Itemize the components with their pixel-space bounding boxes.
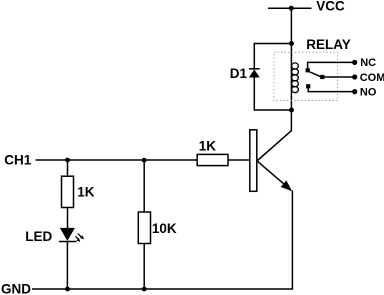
- svg-text:D1: D1: [230, 66, 248, 81]
- wire 10K to GND: [143, 244, 145, 290]
- wire base: [228, 159, 250, 161]
- wire COM: [324, 76, 354, 78]
- relay coil loops: [292, 63, 299, 93]
- relay dotted enclosure: [274, 52, 338, 100]
- wire emitter vertical: [291, 191, 293, 290]
- diode D1: [249, 69, 260, 78]
- svg-text:RELAY: RELAY: [306, 37, 351, 52]
- wire VCC rail: [268, 7, 312, 9]
- wire GND rail: [32, 288, 292, 290]
- transistor Q1 base bar: [250, 130, 257, 192]
- wire D1 bottom horizontal: [254, 109, 291, 111]
- wire resistor to LED: [67, 208, 69, 229]
- svg-text:GND: GND: [1, 281, 31, 295]
- svg-text:COM: COM: [360, 72, 384, 84]
- NO fixed contact pad: [306, 84, 310, 88]
- svg-text:1K: 1K: [199, 139, 217, 154]
- node CH1/LED junction: [65, 158, 70, 163]
- wire NO: [308, 88, 354, 91]
- wire NC contact: [308, 62, 355, 68]
- wire D1 left vertical upper: [253, 43, 255, 69]
- svg-text:10K: 10K: [152, 221, 177, 236]
- wire VCC to relay coil top: [290, 8, 292, 43]
- wire emitter diagonal: [258, 161, 286, 185]
- node NO terminal: [352, 89, 357, 94]
- node GND/10K junction: [142, 287, 147, 292]
- LED light arrow 1: [78, 234, 84, 240]
- wire D1 left vertical lower: [253, 78, 255, 111]
- node NC terminal: [352, 60, 357, 65]
- svg-text:NC: NC: [360, 57, 376, 69]
- wire LED to GND: [66, 242, 68, 290]
- wire D1 top horizontal: [254, 43, 291, 45]
- svg-text:VCC: VCC: [316, 0, 345, 13]
- emitter arrowhead: [281, 180, 293, 191]
- node coil top junction: [289, 41, 294, 46]
- LED D2: [59, 228, 77, 242]
- COM contact pad: [320, 75, 324, 79]
- svg-text:1K: 1K: [77, 184, 95, 199]
- LED light arrow 2: [76, 236, 81, 242]
- node GND/LED junction: [65, 287, 70, 292]
- relay armature: [310, 72, 321, 77]
- svg-text:CH1: CH1: [4, 153, 31, 168]
- wire collector vertical: [290, 110, 292, 131]
- wire collector diagonal: [258, 130, 292, 160]
- node VCC junction: [289, 6, 294, 11]
- svg-text:NO: NO: [360, 86, 377, 98]
- node CH1/10K junction: [142, 158, 147, 163]
- resistor R3 10K: [138, 212, 150, 244]
- node COM terminal: [352, 74, 357, 79]
- resistor R2 1K (base): [197, 154, 228, 165]
- node coil bottom junction: [289, 108, 294, 113]
- NC fixed contact pad: [306, 68, 310, 72]
- wire CH1: [36, 159, 198, 161]
- wire 10K upper: [143, 160, 145, 212]
- resistor R1 1K (LED): [62, 176, 74, 207]
- wire relay coil vertical: [290, 44, 292, 111]
- wire LED branch upper: [67, 160, 69, 176]
- svg-text:LED: LED: [25, 229, 52, 244]
